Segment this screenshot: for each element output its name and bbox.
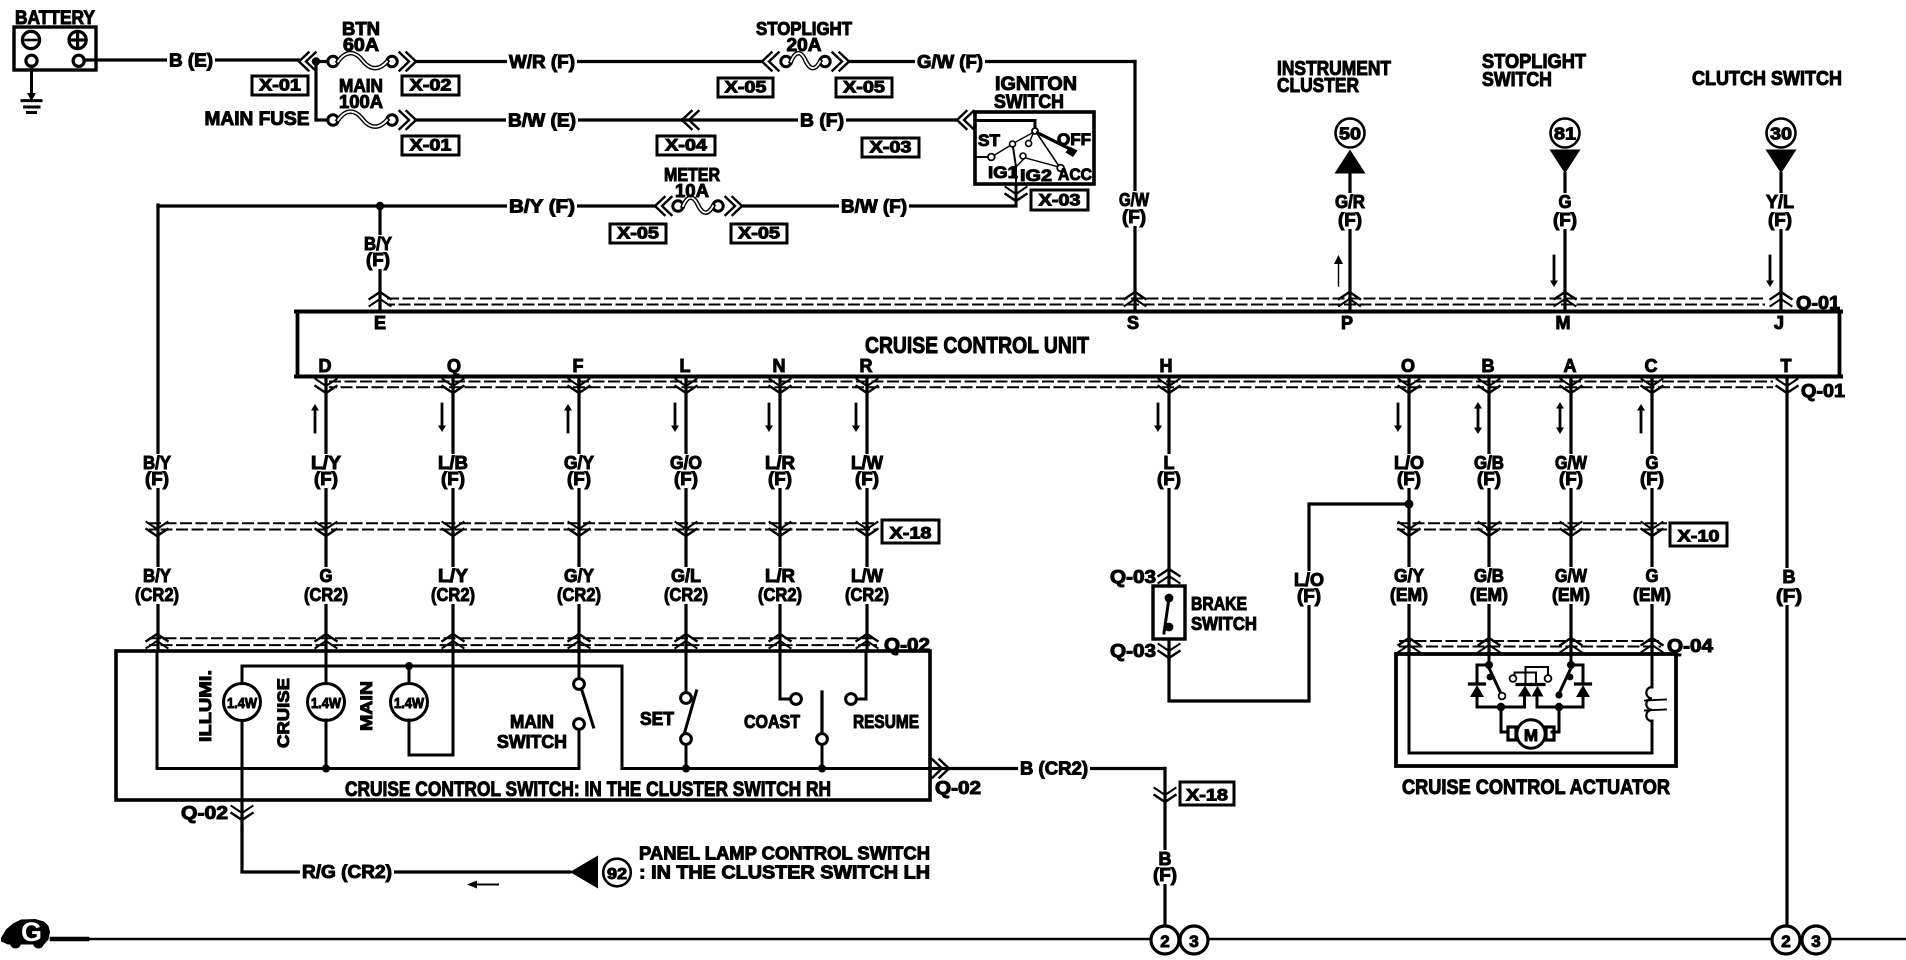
svg-text:X-01: X-01 <box>259 76 301 95</box>
switch COAST/RESUME pole <box>817 692 828 773</box>
node: junction on pin O wire <box>1405 500 1414 509</box>
svg-text:Q-02: Q-02 <box>935 778 981 798</box>
svg-text:N: N <box>773 356 786 376</box>
svg-text:(F): (F) <box>1397 469 1421 489</box>
wire L/O(F) brake switch to O node <box>1169 504 1409 701</box>
wire pin R column <box>865 378 868 651</box>
connector Q-01 dashed row (top) <box>388 299 1764 305</box>
brake switch <box>1153 586 1185 639</box>
wire B(CR2) corner down to X-18 <box>1163 769 1166 927</box>
connector X-18 chevrons column N <box>770 522 791 536</box>
svg-text:(CR2): (CR2) <box>845 585 889 605</box>
svg-text:B (CR2): B (CR2) <box>1020 759 1088 779</box>
wire G/Y(EM) inside actuator to bottom bus <box>1409 654 1652 753</box>
connector Q-01 chevrons pin E <box>370 292 391 306</box>
connector 3 (right ground joint) <box>1802 926 1830 954</box>
svg-text:10A: 10A <box>675 181 709 201</box>
connector X-01 chevrons on MAIN fuse output <box>400 111 417 129</box>
svg-text:1.4W: 1.4W <box>227 696 257 712</box>
svg-text:L/Y: L/Y <box>438 566 468 586</box>
arrow on pin H wire <box>1154 404 1162 432</box>
svg-text:IG1: IG1 <box>988 163 1018 182</box>
connector Q-04 chevrons column O <box>1399 638 1420 652</box>
diode D1 (actuator left) <box>1470 665 1502 707</box>
svg-text:(CR2): (CR2) <box>304 585 348 605</box>
connector X-18 chevrons on B wire <box>1155 788 1176 802</box>
connector Q-02 dashed row <box>150 638 876 645</box>
wire label G/W (F) column A <box>1553 453 1589 489</box>
connector label X-01 <box>252 76 308 96</box>
connector Q-02 chevrons column N <box>770 634 791 648</box>
svg-text:Q-03: Q-03 <box>1110 641 1156 661</box>
connector X-18 dashed row <box>150 523 877 529</box>
pin D label <box>319 356 332 376</box>
svg-text:(CR2): (CR2) <box>664 585 708 605</box>
svg-text:(F): (F) <box>855 469 879 489</box>
connector X-10 chevrons column O <box>1399 522 1420 536</box>
connector Q-01 chevrons pin T (bottom) <box>1777 379 1798 393</box>
svg-text:G/Y: G/Y <box>1394 566 1424 586</box>
svg-text:(F): (F) <box>1776 586 1802 606</box>
connector label Q-02 (right exit) <box>935 778 981 798</box>
connector X-10 dashed row <box>1398 523 1666 529</box>
wire B/W(E) MAIN fuse to connector X-04 <box>416 110 682 131</box>
connector label Q-03 (lower) <box>1110 641 1156 661</box>
connector 2 (ground joint) <box>1151 926 1179 954</box>
svg-text:X-05: X-05 <box>617 224 659 243</box>
svg-text:SWITCH: SWITCH <box>1482 69 1552 91</box>
svg-text:B (F): B (F) <box>800 111 844 131</box>
connector Q-01 chevrons pin S <box>1125 292 1146 306</box>
svg-text:OFF: OFF <box>1057 130 1091 149</box>
wire left bus of switch (B/Y net) <box>157 651 579 769</box>
svg-text:X-04: X-04 <box>665 136 708 155</box>
svg-text:(F): (F) <box>768 469 792 489</box>
wire pin D column <box>324 378 327 651</box>
node: MAIN lamp top junction <box>405 662 413 684</box>
wire label G/Y (EM) <box>1388 566 1430 605</box>
pin P label <box>1341 313 1353 333</box>
wire label G/L (CR2) <box>662 566 710 605</box>
svg-text:MAIN: MAIN <box>510 712 554 732</box>
connector X-18 chevrons column Q <box>443 522 464 536</box>
svg-text:(F): (F) <box>1477 469 1501 489</box>
connector X-10 chevrons column A <box>1561 522 1582 536</box>
svg-text:RESUME: RESUME <box>853 712 919 732</box>
ignition switch <box>975 74 1094 185</box>
svg-text:30: 30 <box>1770 124 1792 144</box>
connector label X-05 (meter right) <box>731 224 787 244</box>
connector label Q-03 (upper) <box>1110 567 1156 587</box>
svg-text:3: 3 <box>1189 932 1198 951</box>
svg-text:(F): (F) <box>1640 469 1664 489</box>
svg-text:(EM): (EM) <box>1470 585 1508 605</box>
wire inner top bus of switch <box>242 666 622 769</box>
node: actuator left lower junction to motor <box>1497 703 1508 732</box>
svg-text:M: M <box>1524 726 1538 745</box>
pin C label <box>1645 356 1658 376</box>
connector Q-02 chevrons on ILLUMI exit <box>232 800 253 830</box>
svg-text:P: P <box>1341 313 1353 333</box>
connector Q-01 chevrons pin L (bottom) <box>676 379 697 393</box>
connector label Q-02 (bottom left) <box>181 803 228 823</box>
svg-text:BATTERY: BATTERY <box>15 8 95 29</box>
svg-text:CLUSTER: CLUSTER <box>1277 75 1359 97</box>
svg-text:O: O <box>1401 356 1415 376</box>
svg-text:A: A <box>1564 356 1577 376</box>
wire pin H to brake switch <box>1167 378 1170 586</box>
wire pin A column (right) <box>1569 378 1572 654</box>
cruise control actuator box <box>1396 654 1676 799</box>
connector Q-03 chevrons (upper) <box>1159 569 1180 583</box>
svg-text:E: E <box>374 313 386 333</box>
svg-text:(EM): (EM) <box>1552 585 1590 605</box>
wire label G/B (EM) <box>1468 566 1510 605</box>
battery <box>14 8 96 70</box>
svg-text:G: G <box>1559 192 1572 212</box>
wire label B (CR2) <box>1018 758 1090 779</box>
connector label Q-02 (row) <box>884 635 930 655</box>
connector Q-02 chevrons column Q <box>443 634 464 648</box>
switch COAST contact <box>744 651 801 732</box>
pin O label <box>1401 356 1415 376</box>
svg-text:100A: 100A <box>339 92 383 112</box>
connector label X-18 <box>882 520 939 543</box>
pin J label <box>1774 313 1784 333</box>
wire label L/W (CR2) <box>843 566 891 605</box>
connector X-04 inline chevrons <box>682 111 699 129</box>
wire label G/Y (CR2) <box>555 566 603 605</box>
pin N label <box>773 356 786 376</box>
wire label G (EM) <box>1631 566 1673 605</box>
svg-text:MAIN FUSE: MAIN FUSE <box>205 109 310 130</box>
svg-text:ILLUMI.: ILLUMI. <box>196 670 215 742</box>
node: actuator right lower junction to motor <box>1552 703 1563 732</box>
wire label L/R (F) <box>763 453 797 489</box>
connector Q-04 chevrons column B <box>1479 638 1500 652</box>
arrow on pin N wire <box>765 404 773 432</box>
svg-text:3: 3 <box>1811 932 1820 951</box>
wire pin Q column <box>451 378 454 651</box>
switch SET <box>640 651 697 773</box>
svg-text:X-02: X-02 <box>410 76 452 95</box>
connector Q-01 chevrons pin B (bottom) <box>1479 379 1500 393</box>
svg-text:CRUISE: CRUISE <box>274 678 293 748</box>
connector X-01 inline chevrons <box>299 53 316 71</box>
connector X-02 inline chevrons <box>400 53 417 71</box>
svg-text:COAST: COAST <box>744 712 800 732</box>
connector Q-01 chevrons pin P <box>1339 292 1360 306</box>
svg-text:X-10: X-10 <box>1678 527 1720 546</box>
svg-text:G/W: G/W <box>1555 566 1587 586</box>
svg-text:B/W (F): B/W (F) <box>841 197 907 217</box>
wire R/G(CR2) to panel lamp control switch <box>242 828 570 882</box>
svg-text:W/R (F): W/R (F) <box>509 52 575 72</box>
connector label X-04 <box>657 136 715 156</box>
svg-text:20A: 20A <box>787 35 822 55</box>
small left arrow under R/G wire <box>467 881 498 889</box>
svg-text:F: F <box>573 356 584 376</box>
limit switch bracket (actuator centre) <box>1510 667 1552 683</box>
svg-text:R/G (CR2): R/G (CR2) <box>302 862 392 882</box>
label BRAKE SWITCH <box>1191 594 1257 634</box>
fuse BTN 60A <box>321 19 397 68</box>
connector X-10 chevrons column C <box>1642 522 1663 536</box>
arrow on pin D wire <box>311 404 319 432</box>
connector label X-05 (meter left) <box>610 224 666 244</box>
svg-text:G/L: G/L <box>671 566 701 586</box>
switch (actuator right) with node <box>1555 654 1575 699</box>
svg-text:J: J <box>1774 313 1784 333</box>
svg-text:B/W (E): B/W (E) <box>508 111 576 131</box>
label panel lamp control switch <box>639 843 930 883</box>
connector Q-01 chevrons pin F (bottom) <box>569 379 590 393</box>
svg-text:MAIN: MAIN <box>357 681 376 731</box>
svg-text:(F): (F) <box>1157 469 1181 489</box>
ground bus wire <box>52 937 1906 942</box>
pin T label <box>1781 356 1792 376</box>
svg-text:50: 50 <box>1339 124 1361 144</box>
ground (battery negative) <box>22 66 41 113</box>
svg-text:ST: ST <box>978 131 1001 150</box>
svg-text:G: G <box>1646 566 1659 586</box>
svg-text:L/W: L/W <box>851 566 883 586</box>
lamp CRUISE 1.4W <box>274 651 345 748</box>
wire label G/W (EM) <box>1550 566 1592 605</box>
svg-text:(CR2): (CR2) <box>758 585 802 605</box>
cruise control switch box <box>116 651 930 801</box>
pin A label <box>1564 356 1577 376</box>
connector 2 (right ground joint) <box>1772 926 1800 954</box>
arrow on pin L wire <box>671 404 679 432</box>
svg-text:(F): (F) <box>314 469 338 489</box>
svg-text:H: H <box>1160 356 1173 376</box>
wire label L/Y (F) <box>309 453 343 489</box>
svg-text:(F): (F) <box>1768 210 1792 230</box>
connector X-18 chevrons column D <box>316 522 337 536</box>
svg-text:G: G <box>21 917 42 947</box>
svg-text:G/Y: G/Y <box>564 566 594 586</box>
ground symbol G (body ground) <box>1 917 50 949</box>
connector X-05 chevrons (right of METER fuse) <box>726 197 743 215</box>
connector Q-03 chevrons (lower) <box>1159 639 1180 660</box>
thin up arrow on instrument cluster wire <box>1334 255 1343 286</box>
pin E label <box>374 313 386 333</box>
wire label B (F) lower <box>1151 849 1179 885</box>
svg-text:SET: SET <box>640 709 674 729</box>
svg-text:(F): (F) <box>1153 865 1177 885</box>
connector label X-01 (second) <box>402 136 459 156</box>
connector X-05 chevrons (left of METER fuse) <box>655 197 672 215</box>
connector X-05 chevrons (right of stoplight fuse) <box>833 53 850 71</box>
connector Q-04 chevrons column A <box>1561 638 1582 652</box>
wire G/W(F) stoplight fuse to cruise unit pin S <box>849 51 1151 310</box>
label MAIN FUSE <box>205 109 310 130</box>
connector Q-02 chevrons column B/Y <box>147 634 168 648</box>
wire MAIN lamp bottom to L/B column <box>409 651 453 755</box>
svg-text:CRUISE CONTROL SWITCH: IN THE: CRUISE CONTROL SWITCH: IN THE CLUSTER SW… <box>345 778 831 801</box>
connector X-18 chevrons column B/Y <box>147 522 168 536</box>
svg-text:IG2: IG2 <box>1020 166 1052 185</box>
svg-text:Q-01: Q-01 <box>1801 381 1845 401</box>
clutch switch feed <box>1692 68 1842 310</box>
svg-text:C: C <box>1645 356 1658 376</box>
wire B(E) battery to connector X-01 <box>84 50 299 71</box>
svg-text:PANEL LAMP CONTROL SWITCH: PANEL LAMP CONTROL SWITCH <box>639 843 930 864</box>
svg-text:G/R: G/R <box>1335 192 1365 212</box>
wire pin N column <box>778 378 781 651</box>
connector label X-10 <box>1670 523 1727 546</box>
svg-text:G/W (F): G/W (F) <box>917 52 983 72</box>
wire B/W(F) METER fuse to ignition switch X-03 <box>742 196 1016 217</box>
svg-text:2: 2 <box>1781 932 1790 951</box>
wire pin F column <box>577 378 580 651</box>
connector label X-18 (lower) <box>1180 782 1234 805</box>
connector X-18 chevrons column F <box>569 522 590 536</box>
node: junction of BTN and MAIN fuse feeds <box>312 57 320 120</box>
wire label L/O (F) column O <box>1392 453 1426 489</box>
connector X-18 chevrons column R <box>857 522 878 536</box>
svg-text:(F): (F) <box>1297 586 1321 606</box>
pin S label <box>1127 313 1139 333</box>
svg-text:CRUISE CONTROL ACTUATOR: CRUISE CONTROL ACTUATOR <box>1402 776 1670 799</box>
svg-text:(CR2): (CR2) <box>135 585 179 605</box>
arrow on pin O wire <box>1394 404 1402 432</box>
wire label G (F) column C <box>1638 453 1666 489</box>
wire B/Y column (left) <box>156 206 159 651</box>
pin B label <box>1482 356 1495 376</box>
arrow on pin C wire <box>1637 404 1645 432</box>
connector Q-01 dashed row (bottom) <box>330 382 1772 388</box>
pin F label <box>573 356 584 376</box>
arrow on pin Q wire <box>438 404 446 432</box>
wire label L/R (CR2) <box>756 566 804 605</box>
svg-text:1.4W: 1.4W <box>311 696 341 712</box>
wire pin C column (right) <box>1650 378 1653 654</box>
arrow on pin B wire <box>1474 402 1482 434</box>
svg-text:S: S <box>1127 313 1139 333</box>
connector Q-04 dashed row <box>1400 641 1660 647</box>
pin L label <box>680 356 691 376</box>
svg-text:X-05: X-05 <box>725 78 767 97</box>
svg-text:60A: 60A <box>343 35 379 55</box>
svg-text:L/R: L/R <box>765 566 795 586</box>
svg-text:G/B: G/B <box>1474 566 1504 586</box>
cruise control unit U1 <box>296 312 1841 377</box>
connector Q-02 chevrons on B(CR2) exit <box>930 760 1165 778</box>
connector Q-01 chevrons pin N (bottom) <box>770 379 791 393</box>
svg-text:B: B <box>1783 567 1796 587</box>
svg-text:X-03: X-03 <box>1039 191 1081 210</box>
svg-text:SWITCH: SWITCH <box>497 732 567 752</box>
connector label Q-01 (top right) <box>1796 293 1840 313</box>
connector 3 (ground joint) <box>1180 926 1208 954</box>
wire W/R(F) to STOPLIGHT fuse <box>416 51 762 72</box>
svg-text:D: D <box>319 356 332 376</box>
wire label L/B (F) <box>436 453 470 489</box>
arrow on pin R wire <box>852 404 860 432</box>
switch (actuator left) with node <box>1485 654 1505 699</box>
svg-text:: IN THE CLUSTER SWITCH LH: : IN THE CLUSTER SWITCH LH <box>639 862 930 883</box>
wire right bus of switch (B net) <box>622 767 930 770</box>
connector X-03 inline chevrons <box>957 111 974 129</box>
diode D2 (actuator right) <box>1559 665 1591 707</box>
lamp ILLUMI. 1.4W <box>196 670 261 800</box>
svg-text:T: T <box>1781 356 1792 376</box>
connector Q-01 chevrons pin Q (bottom) <box>443 379 464 393</box>
arrow on pin A wire <box>1556 402 1564 434</box>
connector X-10 chevrons column B <box>1479 522 1500 536</box>
fuse MAIN 100A <box>316 76 397 127</box>
svg-text:X-18: X-18 <box>1186 786 1228 805</box>
connector label X-02 <box>402 76 459 96</box>
svg-text:(EM): (EM) <box>1390 585 1428 605</box>
connector label X-05 (right) <box>836 78 892 98</box>
svg-text:(EM): (EM) <box>1633 585 1671 605</box>
svg-text:(F): (F) <box>567 469 591 489</box>
wire label G/B (F) column B <box>1472 453 1506 489</box>
connector label X-03 (below ignition switch) <box>1031 190 1088 210</box>
wire label L/Y (CR2) <box>429 566 477 605</box>
svg-text:(F): (F) <box>1559 469 1583 489</box>
svg-text:(CR2): (CR2) <box>431 585 475 605</box>
node: B/Y junction to pin E <box>376 202 384 210</box>
svg-text:BRAKE: BRAKE <box>1191 594 1247 614</box>
wire CRUISE lamp bottom to bus <box>322 720 330 773</box>
stoplight switch feed <box>1482 51 1586 310</box>
connector Q-01 chevrons pin M <box>1555 292 1576 306</box>
svg-text:81: 81 <box>1554 124 1576 144</box>
wire pin E feed (B/Y) <box>362 206 394 310</box>
switch MAIN SWITCH <box>497 651 594 769</box>
svg-text:X-01: X-01 <box>410 136 452 155</box>
connector Q-01 chevrons pin J <box>1771 292 1792 306</box>
wire label L/W (F) <box>849 453 885 489</box>
fuse METER 10A <box>664 165 723 213</box>
svg-text:(CR2): (CR2) <box>557 585 601 605</box>
svg-text:X-18: X-18 <box>890 524 932 543</box>
svg-text:(F): (F) <box>1553 210 1577 230</box>
pin H label <box>1160 356 1173 376</box>
connector Q-02 chevrons column D <box>316 634 337 648</box>
wire B/Y(F) row with METER fuse <box>158 196 655 217</box>
svg-text:X-05: X-05 <box>843 78 885 97</box>
svg-text:G: G <box>320 566 333 586</box>
svg-text:SWITCH: SWITCH <box>1191 614 1257 634</box>
instrument cluster feed <box>1277 58 1391 310</box>
solenoid coil (actuator) <box>1645 654 1666 753</box>
connector X-18 chevrons column L <box>676 522 697 536</box>
svg-text:X-05: X-05 <box>738 224 780 243</box>
wire label G/O (F) <box>668 453 704 489</box>
wire label B/Y (F) left column <box>141 453 173 489</box>
svg-text:(F): (F) <box>441 469 465 489</box>
svg-text:1.4W: 1.4W <box>394 696 424 712</box>
svg-text:Q-02: Q-02 <box>181 803 228 823</box>
fuse STOPLIGHT 20A <box>756 19 852 68</box>
svg-text:B/Y: B/Y <box>143 566 171 586</box>
svg-text:L: L <box>680 356 691 376</box>
svg-text:ACC: ACC <box>1058 165 1092 184</box>
svg-text:Y/L: Y/L <box>1766 192 1794 212</box>
svg-text:(F): (F) <box>1122 207 1146 227</box>
connector X-05 chevrons (left of stoplight fuse) <box>762 53 779 71</box>
pin Q label <box>447 356 461 376</box>
connector Q-01 chevrons pin R (bottom) <box>857 379 878 393</box>
svg-text:(F): (F) <box>145 469 169 489</box>
wire label L (F) <box>1155 453 1183 489</box>
connector Q-04 chevrons column C <box>1642 638 1663 652</box>
